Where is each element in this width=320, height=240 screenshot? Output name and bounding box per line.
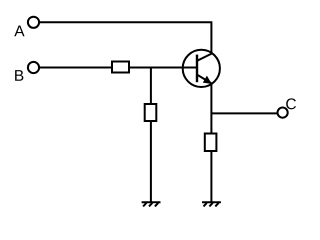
wire node to terminal C [211, 112, 277, 114]
wire R3 to ground [210, 152, 212, 203]
wire B to resistor R1 [39, 67, 111, 69]
resistor R1 [112, 62, 129, 73]
resistor R2 [145, 104, 157, 121]
label C [286, 98, 296, 109]
resistor R3 [205, 134, 217, 152]
terminal B [28, 62, 39, 73]
terminal C [278, 108, 288, 118]
node junction base branch [150, 68, 152, 104]
label A [14, 26, 24, 37]
wire A to collector corner [39, 22, 211, 54]
label B [15, 70, 23, 81]
ground right [202, 202, 221, 206]
wire R2 to ground [150, 122, 152, 203]
ground left [142, 202, 161, 206]
wire emitter down [210, 83, 212, 133]
transistor Q1 [183, 50, 220, 87]
terminal A [28, 17, 39, 28]
wire R1 to base [130, 67, 197, 69]
